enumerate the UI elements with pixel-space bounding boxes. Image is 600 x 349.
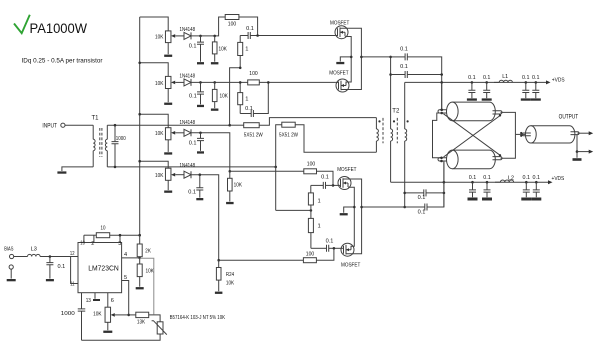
T2 polarity dots [378, 120, 380, 122]
wire M2 source [346, 57, 351, 82]
svg-text:+VDS: +VDS [552, 176, 565, 182]
capacitor 0.1 M4 gate [311, 247, 327, 249]
wire to output ground [576, 152, 578, 158]
svg-text:B57164-K 103-J NT 5% 10K: B57164-K 103-J NT 5% 10K [170, 315, 226, 321]
wire bias to L3 [14, 256, 28, 258]
MOSFET M2 [336, 79, 349, 92]
resistor 2K [139, 235, 141, 244]
svg-text:100: 100 [249, 71, 257, 77]
resistor 10K row2 [214, 82, 216, 89]
wire 13K to thermistor [149, 315, 160, 322]
resistor 1 Ra [310, 185, 312, 193]
svg-text:10K: 10K [234, 183, 242, 189]
wire U3 inner to output arrow [578, 132, 590, 134]
capacitor 0.1 drain A1 [405, 53, 407, 60]
wire thermistor to bottom rail [82, 334, 161, 340]
node U1 left inner [440, 112, 443, 115]
wire row3 feed line to M3 [230, 170, 304, 172]
capacitor 0.1 rail1 at 486.7 [485, 81, 488, 84]
resistor 1 Rb [310, 210, 312, 218]
svg-text:MOSFET: MOSFET [329, 71, 349, 77]
node U3 left leads [520, 132, 522, 134]
wire pot2 to ground [167, 89, 169, 103]
wire pin10 stub [83, 235, 85, 242]
svg-text:4: 4 [124, 252, 127, 258]
node U2 right lead [499, 154, 501, 156]
svg-text:0.1: 0.1 [418, 195, 426, 201]
svg-text:2K: 2K [145, 248, 151, 254]
svg-text:MOSFET: MOSFET [341, 263, 361, 269]
svg-text:1: 1 [318, 198, 321, 204]
T1 core [100, 128, 102, 157]
svg-text:0.1: 0.1 [188, 190, 196, 196]
ground cap row4 [196, 198, 203, 200]
wire pin4 node to thermistor (sense line) [140, 258, 154, 314]
diode 1N4148 row3 [184, 129, 191, 136]
MOSFET M1 [335, 26, 348, 39]
svg-text:INPUT: INPUT [42, 123, 57, 129]
svg-text:+VDS: +VDS [552, 77, 565, 83]
resistor 5X51 2W right [282, 122, 295, 127]
potentiometer 10K row1 [165, 31, 171, 43]
wire pot1 to ground [167, 43, 169, 55]
svg-text:0.1: 0.1 [418, 209, 426, 215]
svg-text:0.1: 0.1 [189, 44, 197, 50]
wire feedback node to Ra Rb mid [276, 209, 311, 211]
svg-text:10K: 10K [155, 81, 163, 87]
wire M4 gate [334, 247, 344, 249]
capacitor 1000 [114, 125, 116, 141]
svg-text:10K: 10K [219, 47, 227, 53]
diode 1N4148 row4 [184, 171, 191, 178]
svg-text:0.1: 0.1 [246, 26, 254, 32]
svg-text:5: 5 [124, 275, 127, 281]
svg-text:0.1: 0.1 [321, 175, 329, 181]
capacitor 1000 LM723 [81, 293, 83, 309]
wire 10 resistor to 2K [110, 234, 140, 236]
wire pot to ground [107, 322, 109, 330]
wire +VDS rail bottom [391, 181, 549, 183]
capacitor 0.1 row4 [199, 175, 201, 188]
svg-text:0.1: 0.1 [533, 175, 541, 181]
node top pair sources [350, 56, 353, 59]
svg-text:BIAS: BIAS [4, 246, 13, 252]
ground T1 [57, 171, 66, 173]
capacitor 0.1 drain B2 [405, 206, 425, 208]
capacitor 0.1 row3 [200, 133, 202, 139]
capacitor 0.1 row1 gate [248, 32, 250, 39]
wire pot4 to ground [167, 180, 169, 190]
node U2 left leads [440, 157, 443, 160]
wire U3 outer down [576, 135, 578, 152]
wire row1 RC bottom to feedback bus [230, 68, 241, 125]
resistor R24 10K [218, 260, 220, 267]
wire pin3 stub [119, 235, 121, 242]
node M4 gate [333, 247, 336, 250]
potentiometer 10K LM723 [105, 307, 111, 322]
svg-text:0.1: 0.1 [58, 264, 66, 270]
wire M1 gate [335, 35, 337, 37]
inductor L2 [495, 181, 500, 183]
wire top drains to T2 [361, 56, 390, 58]
svg-text:PA1000W: PA1000W [30, 21, 88, 36]
coax transformer U3 (output cylinder) [531, 126, 570, 143]
node T1 bottom feedback riser [274, 166, 277, 169]
wire pot3 to ground [167, 140, 169, 152]
capacitor 0.1 rail2 at 536.3 [535, 181, 538, 184]
bias terminal 2 [9, 265, 13, 269]
wire M1 drain [340, 28, 361, 57]
wire L3 to IC [40, 256, 78, 258]
MOSFET M3 [338, 177, 351, 190]
T2 primary B winding [404, 82, 406, 129]
svg-text:0.1: 0.1 [483, 175, 491, 181]
svg-text:R24: R24 [226, 272, 234, 278]
wire U1 right to sum node [501, 112, 516, 134]
wire M1 source [345, 37, 351, 57]
svg-text:0.1: 0.1 [532, 75, 540, 81]
svg-text:10K: 10K [146, 268, 154, 274]
wire output return arrow [577, 151, 589, 153]
capacitor 0.1 M3 gate [311, 184, 324, 186]
ground rail2 cap [531, 198, 541, 201]
ground 10K row2 [211, 109, 219, 111]
arrow +VDS top [546, 80, 551, 84]
ground pot1 [164, 55, 172, 57]
ground output [573, 158, 582, 161]
capacitor 0.1 rail1 at 535.8 [535, 81, 538, 84]
T2 core [383, 118, 397, 143]
wire M3 gate [333, 184, 341, 186]
inductor L3 [28, 254, 41, 256]
potentiometer 10K row2 [165, 76, 171, 88]
wire T1 primary to ground [62, 167, 93, 171]
svg-text:10K: 10K [155, 34, 163, 40]
wire sum node to U3 [515, 133, 525, 135]
svg-text:0.1: 0.1 [469, 175, 477, 181]
ground pot3 [164, 152, 172, 154]
ground pot LM723 [103, 331, 112, 333]
svg-text:10K: 10K [155, 131, 163, 137]
ground cap row1 [197, 62, 204, 64]
wire U2 right to sum node [501, 134, 516, 158]
svg-text:1: 1 [245, 47, 248, 53]
wire pin2 stub [93, 235, 95, 242]
wire input to T1 [65, 124, 93, 126]
svg-text:100: 100 [228, 21, 236, 27]
svg-text:IDq 0.25 - 0.5A per transistor: IDq 0.25 - 0.5A per transistor [22, 58, 103, 65]
T2 feedback winding [375, 118, 377, 129]
capacitor 0.1 rail1 at 525.8 [525, 81, 528, 84]
capacitor 0.1 row1 [200, 36, 202, 42]
svg-text:MOSFET: MOSFET [337, 167, 357, 173]
capacitor 0.1 bias [49, 257, 51, 263]
resistor 10K row1 [214, 36, 216, 42]
wire M2 gate [336, 81, 339, 83]
diagonal U2 inner to U1 right [444, 116, 501, 157]
ground R24 [215, 292, 223, 294]
svg-text:6: 6 [111, 298, 114, 304]
resistor 10K mid [139, 258, 141, 264]
wire row4 bias rail [140, 161, 169, 168]
wire 5X51 right to feedback riser [276, 125, 282, 211]
resistor 100 M3 row [304, 169, 317, 174]
node row3 junction [229, 170, 232, 173]
ground rail1 cap [531, 98, 541, 100]
wire row3 diode to drop [191, 133, 230, 172]
wire +VDS rail top [405, 81, 547, 83]
svg-text:5X51 2W: 5X51 2W [279, 133, 299, 139]
capacitor 0.1 row2 [200, 82, 202, 92]
ground rail2 cap [521, 198, 531, 201]
resistor 13K [129, 314, 136, 316]
wire bias bus [139, 17, 141, 235]
ground rail1 cap [521, 98, 531, 100]
svg-text:T1: T1 [91, 116, 99, 122]
wire T1 secondary top rail [107, 124, 229, 126]
svg-text:0.1: 0.1 [400, 46, 408, 52]
ground stub top pair [340, 57, 351, 62]
wire pin6 stub [107, 293, 109, 308]
svg-text:L2: L2 [508, 175, 514, 181]
potentiometer 10K row3 [165, 128, 171, 140]
wire M4 source [351, 207, 354, 246]
svg-text:13K: 13K [137, 319, 145, 325]
wire M2 drain [341, 57, 361, 90]
wire T1 secondary bottom rail [107, 166, 275, 168]
wire row1 bias rail [140, 17, 169, 31]
capacitor 0.1 rail2 at 472.5 [471, 181, 474, 184]
wire pin11 loop [71, 257, 78, 284]
svg-text:10K: 10K [155, 173, 163, 179]
svg-text:10: 10 [101, 226, 106, 232]
svg-text:10K: 10K [93, 312, 101, 318]
capacitor 0.1 rail2 at 487 [486, 181, 489, 184]
svg-text:0.1: 0.1 [522, 75, 530, 81]
svg-text:T2: T2 [392, 108, 400, 114]
IC U1 LM723CN box [78, 243, 122, 293]
svg-text:1N4148: 1N4148 [180, 27, 196, 33]
node T1 top / feedback bus [228, 124, 231, 127]
ground rail1 cap [467, 98, 477, 100]
wire M3 source [348, 187, 354, 207]
svg-text:MOSFET: MOSFET [330, 21, 350, 27]
diode 1N4148 row2 [184, 79, 191, 86]
node M3 gate [332, 184, 335, 187]
ground cap row3 [197, 151, 204, 153]
resistor 1 row2 [239, 82, 241, 92]
wire pin4 to 2K node [122, 257, 140, 259]
T2 primary A winding [390, 57, 392, 129]
svg-text:L1: L1 [502, 74, 508, 80]
svg-text:0.1: 0.1 [189, 93, 197, 99]
wire 100 M3 to gate [317, 171, 334, 185]
svg-text:100: 100 [306, 252, 314, 258]
ground rail1 cap [482, 98, 492, 100]
svg-text:OUTPUT: OUTPUT [559, 113, 579, 120]
ground 10K row1 [211, 62, 219, 64]
svg-text:13: 13 [86, 298, 91, 304]
inductor L1 [494, 81, 499, 83]
wire 100 M4 to gate [316, 248, 334, 260]
ground bias cap [46, 279, 54, 281]
ground stub bottom pair [344, 207, 355, 213]
wire row4 diode to drop [191, 175, 219, 261]
svg-text:10K: 10K [226, 280, 234, 286]
svg-text:0.1: 0.1 [326, 239, 334, 245]
wire row4 feed line to M4 [219, 259, 304, 261]
svg-text:0.1: 0.1 [468, 75, 476, 81]
svg-text:12: 12 [70, 251, 75, 257]
wire diode1 to riser [191, 17, 225, 36]
svg-text:1: 1 [245, 97, 248, 103]
svg-text:5X51 2W: 5X51 2W [244, 133, 264, 139]
svg-text:L3: L3 [31, 247, 37, 253]
svg-text:1N4148: 1N4148 [180, 120, 196, 126]
node top pair drains [360, 56, 363, 59]
ground pot4 [164, 191, 172, 193]
wire bottom drains to T2 [362, 206, 405, 208]
wire gate line row1 [240, 35, 335, 37]
potentiometer 10K row4 [165, 168, 171, 180]
wire 100 row1 to gate line [239, 17, 258, 36]
T1 primary winding [92, 125, 94, 139]
resistor 10K row3 [229, 171, 231, 178]
svg-text:1N4148: 1N4148 [180, 163, 196, 169]
resistor 10 top [84, 234, 96, 236]
wire pin13 stub + ground [94, 293, 96, 299]
svg-text:100: 100 [307, 161, 315, 167]
resistor 1 row1 [239, 36, 241, 43]
wire row3 bias rail [140, 114, 169, 128]
svg-text:1: 1 [318, 224, 321, 230]
wire M4 drain [346, 207, 362, 254]
wire row2 gate line [191, 81, 336, 83]
wire U2 lead down to rail2 [443, 161, 445, 207]
wire top drain node east [391, 56, 406, 58]
ground pot2 [164, 103, 172, 105]
coax transformer U1 (top cylinder) [452, 102, 489, 121]
ground rail2 cap [482, 198, 492, 201]
title checkmark [14, 15, 30, 33]
svg-text:0.1: 0.1 [245, 106, 253, 112]
T1 secondary winding [106, 125, 108, 139]
node bottom pair sources [353, 206, 356, 209]
ground bias [7, 279, 16, 281]
thermistor B57164 [157, 322, 163, 334]
wire M3 drain [343, 179, 362, 207]
node bottom pair drains [360, 206, 363, 209]
capacitor 0.1 drain A2 [405, 71, 407, 78]
ground rail2 cap [468, 198, 478, 201]
wire pin5 to wiper node [122, 281, 129, 315]
coax transformer U2 (bottom cylinder) [452, 150, 489, 169]
wire T2 loop bottom [295, 125, 376, 153]
wire cap A2 line [391, 74, 406, 76]
node row4 feed [217, 259, 220, 262]
svg-text:1000: 1000 [116, 136, 126, 142]
ground 10K mid [136, 287, 144, 289]
resistor 100 M4 row [303, 258, 316, 263]
wire VDS to U1 outer [441, 82, 443, 109]
wire bias terminal2 to ground [10, 269, 12, 279]
svg-text:0.1: 0.1 [483, 75, 491, 81]
arrow +VDS bottom [548, 180, 553, 184]
ground 10K row3 [226, 202, 234, 204]
input terminal [61, 123, 65, 127]
node bias bus bottom [138, 234, 141, 237]
svg-text:0.1: 0.1 [189, 141, 197, 147]
capacitor 0.1 rail2 at 526.3 [525, 181, 528, 184]
resistor 100 row1 [225, 15, 239, 20]
bias terminal 1 [10, 254, 14, 258]
capacitor 0.1 rail1 at 471.9 [471, 81, 474, 84]
ground cap row2 [197, 105, 204, 107]
resistor 5X51 2W left [230, 124, 244, 126]
svg-text:1000: 1000 [61, 311, 75, 317]
svg-text:LM723CN: LM723CN [88, 266, 119, 273]
capacitor 0.1 row2 series + riser [240, 113, 251, 115]
svg-text:0.1: 0.1 [400, 64, 408, 70]
node wiper pin5 [127, 314, 130, 317]
resistor 100 row2 [248, 80, 260, 85]
svg-text:10K: 10K [220, 94, 228, 100]
node U1 right lead [499, 114, 501, 116]
wire 5X51 left to T2 loop top [259, 118, 376, 126]
MOSFET M4 [341, 243, 354, 256]
wire U1 inner step to U2 [433, 113, 442, 158]
wire row2 bias rail [140, 63, 169, 77]
capacitor 0.1 drain B1 [405, 192, 424, 194]
svg-text:0.1: 0.1 [523, 175, 531, 181]
svg-text:1N4148: 1N4148 [180, 74, 196, 80]
diode 1N4148 row1 [184, 32, 191, 39]
diagonal U1 inner to U2 right [444, 114, 501, 155]
